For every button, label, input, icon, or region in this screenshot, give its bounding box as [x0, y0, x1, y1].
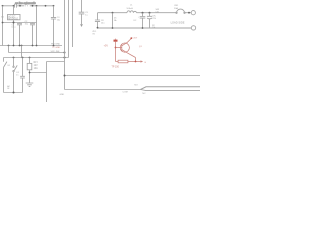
svg-text:G: G: [144, 62, 146, 64]
svg-text:PRI GND: PRI GND: [51, 44, 61, 46]
svg-text:TP 330: TP 330: [112, 67, 120, 69]
wire mid rail: [3, 22, 37, 24]
wire sec top rail: [98, 12, 192, 14]
svg-text:Q1: Q1: [139, 46, 143, 48]
arrow: [80, 24, 83, 27]
svg-text:B1: B1: [1, 16, 4, 18]
node dots mid rail: [2, 22, 15, 24]
capacitor CX inline ticks: [14, 4, 16, 8]
svg-text:LOAD SIDE: LOAD SIDE: [171, 21, 185, 25]
node dots ground bus: [8, 45, 55, 47]
node dots mid lines: [13, 52, 66, 59]
wire line A: [9, 52, 65, 54]
wire drop A: [8, 46, 10, 53]
svg-text:S1: S1: [7, 65, 10, 67]
node: [64, 75, 66, 77]
svg-text:TP GND: TP GND: [52, 47, 61, 49]
capacitor C3: [51, 6, 56, 46]
svg-text:COM: COM: [123, 92, 128, 94]
svg-text:10u: 10u: [25, 24, 29, 26]
svg-text:10u: 10u: [101, 23, 105, 25]
relay K1: [29, 58, 31, 64]
svg-text:L1: L1: [130, 5, 133, 7]
wire drop B: [21, 46, 23, 58]
svg-text:10u: 10u: [57, 20, 61, 22]
svg-text:10A: 10A: [34, 67, 39, 70]
bridge module U1: [13, 6, 15, 15]
svg-text:RLY: RLY: [34, 62, 39, 64]
red node: [115, 47, 117, 49]
wire vertical 2: [68, 0, 70, 58]
red wire base: [116, 47, 122, 49]
red test circuit: [104, 37, 147, 68]
wire fork low: [141, 90, 201, 91]
red node blob: [114, 40, 118, 42]
wire column: [36, 6, 38, 46]
svg-text:GND: GND: [60, 94, 65, 96]
red node out: [130, 37, 132, 39]
red arrow: [141, 60, 144, 62]
node: [13, 92, 15, 94]
svg-text:0.1u: 0.1u: [12, 27, 17, 29]
svg-text:1n: 1n: [16, 75, 19, 77]
svg-text:OUT: OUT: [133, 38, 138, 40]
svg-text:IN: IN: [7, 88, 10, 90]
wire sense: [112, 13, 114, 28]
switch S1: [4, 58, 7, 93]
wire relay out: [30, 72, 47, 74]
capacitor C4: [20, 58, 25, 93]
svg-text:12V: 12V: [34, 65, 39, 67]
red wire vertical: [115, 42, 117, 62]
breaker CB1: [177, 9, 185, 13]
red node e: [135, 61, 137, 63]
capacitor C8 col: [95, 13, 100, 28]
capacitor C1: [17, 23, 22, 46]
resistor R5: [116, 61, 141, 63]
svg-text:20A: 20A: [174, 7, 178, 10]
wire line B: [4, 57, 69, 59]
svg-text:CB1: CB1: [174, 5, 179, 7]
capacitor C6: [140, 13, 146, 28]
wire fork up: [141, 87, 201, 90]
svg-text:5V: 5V: [92, 33, 95, 35]
wire vertical 3: [72, 0, 74, 47]
svg-text:1u: 1u: [85, 15, 88, 17]
svg-text:25V: 25V: [152, 18, 156, 20]
wire bottom left: [4, 92, 23, 94]
switch S2: [14, 58, 18, 93]
terminal minus: [191, 26, 195, 30]
wire bus out mid: [65, 75, 201, 77]
svg-text:NO: NO: [134, 85, 138, 87]
wire long drop: [46, 62, 48, 103]
svg-text:+5V: +5V: [104, 44, 109, 47]
wire sec low rail: [98, 27, 192, 29]
wire line C: [47, 61, 65, 63]
wire left rail: [2, 6, 4, 46]
node dots low rail: [97, 27, 144, 29]
svg-text:NC: NC: [142, 93, 146, 95]
wire top bus: [3, 5, 54, 7]
wire ground bus: [0, 45, 62, 47]
node dots top rail: [112, 12, 190, 14]
capacitor C2: [30, 23, 35, 46]
capacitor C5 col: [79, 0, 85, 24]
wire bus out bottom: [65, 89, 141, 91]
terminal plus: [191, 11, 195, 15]
transistor Q1: [120, 43, 129, 52]
svg-text:100uH: 100uH: [126, 8, 133, 10]
svg-text:TY: TY: [25, 3, 29, 7]
svg-text:D2: D2: [134, 20, 138, 22]
wire main vertical: [64, 0, 66, 90]
svg-text:5A: 5A: [114, 19, 117, 22]
ground: [26, 83, 34, 87]
node dots top bus: [2, 5, 55, 7]
svg-text:CB: CB: [156, 12, 160, 14]
capacitor C7: [147, 13, 152, 28]
inductor L1: [127, 11, 137, 13]
